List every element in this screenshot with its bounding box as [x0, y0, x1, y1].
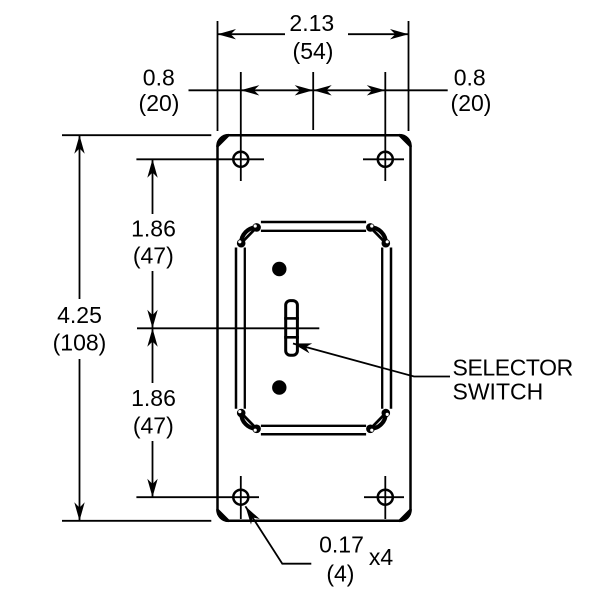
- switch plate corner ornament bottom-left: [237, 409, 261, 433]
- toggle lever outline: [286, 301, 298, 356]
- switch plate inner outline bottom edge: [261, 425, 366, 427]
- extension line top holes: [136, 158, 264, 160]
- svg-text:SELECTOR: SELECTOR: [453, 355, 573, 381]
- switch plate outer outline left edge: [235, 248, 238, 409]
- plate corner fillet wedge top-left: [218, 135, 229, 146]
- dimension 1.86 lower line: [152, 328, 154, 383]
- plate corner fillet wedge top-right: [400, 135, 411, 146]
- switch plate outer outline bottom edge: [261, 433, 366, 436]
- toggle segment line lower: [284, 336, 299, 339]
- dimension 2.13 (54) line: [218, 33, 286, 35]
- switch plate inner outline top edge: [261, 230, 366, 232]
- extension line plate right edge above: [408, 21, 410, 131]
- switch plate screw dot upper: [272, 262, 286, 276]
- svg-text:2.13: 2.13: [289, 10, 334, 36]
- svg-text:(54): (54): [293, 38, 334, 64]
- hole centerline vertical bottom-left: [240, 476, 242, 519]
- hole centerline vertical bottom-right: [384, 476, 386, 519]
- hole centerline horizontal bottom-right: [364, 496, 404, 498]
- svg-text:1.86: 1.86: [131, 216, 176, 242]
- mounting hole bottom-right: [378, 490, 393, 505]
- leader selector switch: [293, 344, 450, 377]
- switch plate corner ornament bottom-right: [366, 409, 390, 433]
- mounting hole bottom-left: [233, 490, 248, 505]
- svg-text:(47): (47): [133, 243, 174, 269]
- extension line plate top edge: [62, 134, 211, 136]
- extension line plate bottom edge: [62, 520, 211, 522]
- svg-text:0.8: 0.8: [454, 65, 486, 91]
- switch plate corner ornament top-left: [237, 223, 261, 247]
- switch plate outer outline top edge: [261, 221, 366, 224]
- extension line vertical centerline above: [312, 72, 314, 130]
- svg-text:(108): (108): [53, 330, 107, 356]
- dimension 1.86 upper line: [152, 159, 154, 214]
- switch plate outer outline right edge: [390, 248, 393, 409]
- hole centerline vertical top-left: [240, 72, 242, 181]
- svg-text:SWITCH: SWITCH: [453, 378, 544, 404]
- plate corner fillet wedge bottom-left: [218, 510, 229, 521]
- svg-text:0.8: 0.8: [143, 65, 175, 91]
- horizontal centerline of plate: [137, 327, 319, 329]
- hole centerline horizontal top-right: [363, 158, 404, 160]
- switch plate inner outline left edge: [244, 248, 246, 409]
- dimension 0.8 line: [189, 89, 448, 91]
- switch plate corner ornament top-right: [366, 223, 390, 247]
- hole centerline vertical top-right: [384, 72, 386, 181]
- extension line bottom holes: [136, 496, 259, 498]
- svg-text:1.86: 1.86: [131, 385, 176, 411]
- dimension 4.25 line: [79, 135, 81, 299]
- switch plate screw dot lower: [272, 380, 286, 394]
- leader hole dimension: [245, 506, 311, 563]
- svg-text:(20): (20): [139, 90, 180, 116]
- svg-text:x4: x4: [369, 544, 394, 570]
- mounting hole top-left: [233, 152, 248, 167]
- plate corner fillet wedge bottom-right: [400, 510, 411, 521]
- switch plate inner outline right edge: [381, 248, 383, 409]
- svg-text:(20): (20): [451, 90, 492, 116]
- svg-text:(4): (4): [326, 561, 354, 587]
- svg-text:0.17: 0.17: [319, 532, 364, 558]
- toggle segment line upper: [284, 317, 299, 320]
- mounting hole top-right: [378, 152, 393, 167]
- mounting plate outline: [218, 135, 411, 521]
- svg-text:4.25: 4.25: [57, 302, 102, 328]
- extension line plate left edge above: [217, 21, 219, 131]
- svg-text:(47): (47): [133, 413, 174, 439]
